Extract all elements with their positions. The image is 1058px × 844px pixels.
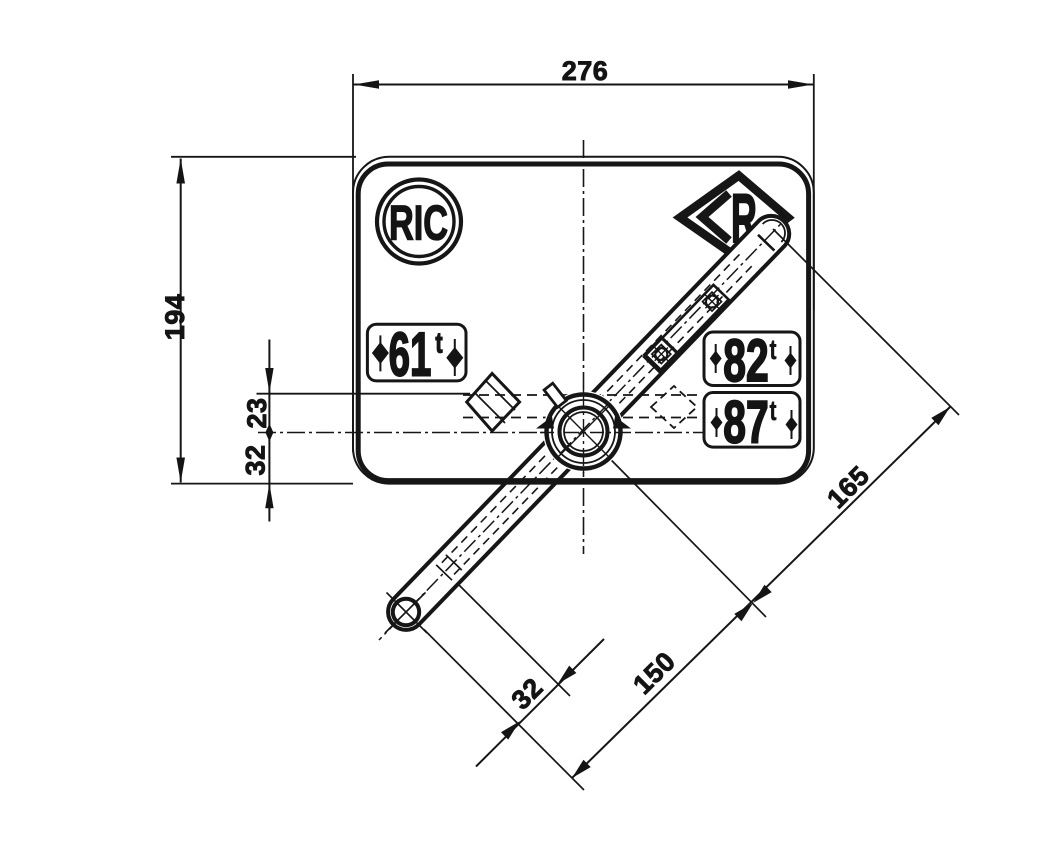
RIC circle logo — [377, 180, 461, 264]
hub — [536, 383, 631, 476]
dimension 32 diagonal — [476, 639, 604, 767]
centerline horizontal through hub — [258, 432, 706, 434]
svg-text:61: 61 — [389, 321, 432, 390]
extension line 165 from rod tip — [773, 229, 959, 415]
svg-text:23: 23 — [242, 397, 272, 428]
hidden slot dashed lines across plate — [463, 394, 702, 396]
svg-text:t: t — [770, 395, 777, 426]
hub left wedge — [536, 417, 554, 429]
svg-text:82: 82 — [723, 327, 768, 394]
svg-text:194: 194 — [160, 294, 190, 341]
centerline vertical through hub — [583, 140, 585, 554]
plate outline outer — [353, 157, 814, 484]
rod end hole — [393, 599, 419, 625]
svg-text:87: 87 — [723, 389, 768, 456]
rod axis centerline — [379, 216, 789, 640]
hub right wedge — [613, 417, 631, 429]
svg-text:t: t — [770, 334, 777, 365]
bolt 1 — [703, 292, 722, 311]
extension line from rod end hole (lower) — [424, 630, 584, 791]
bolt 2 — [652, 345, 671, 364]
dimension 194 left — [160, 157, 356, 484]
rod pin tick marks — [446, 555, 462, 570]
svg-text:276: 276 — [562, 56, 609, 86]
svg-text:32: 32 — [241, 444, 271, 475]
R diamond logo — [680, 176, 788, 258]
dashed diamond right of hub — [651, 386, 697, 428]
lever rod body — [379, 216, 959, 640]
extension line from hub center diagonal — [556, 404, 766, 617]
clamp plate on rod — [644, 285, 729, 372]
rod hidden slot dashed lines — [439, 254, 739, 565]
hub tab — [544, 383, 566, 407]
clamp square — [645, 338, 678, 371]
plate outline inner bold — [358, 164, 808, 481]
dimension 276 top — [353, 56, 814, 452]
dimension 150 and 165 diagonal — [572, 407, 950, 778]
plate 87t — [704, 389, 800, 456]
svg-text:RIC: RIC — [389, 197, 448, 251]
dimension 23 and 32 left stack — [241, 340, 471, 522]
plate 61t — [367, 321, 466, 390]
extension line from rod pin feature — [455, 581, 570, 696]
hatched diamond left of hub — [467, 374, 520, 432]
plate 82t — [704, 327, 800, 394]
svg-text:t: t — [435, 328, 443, 360]
